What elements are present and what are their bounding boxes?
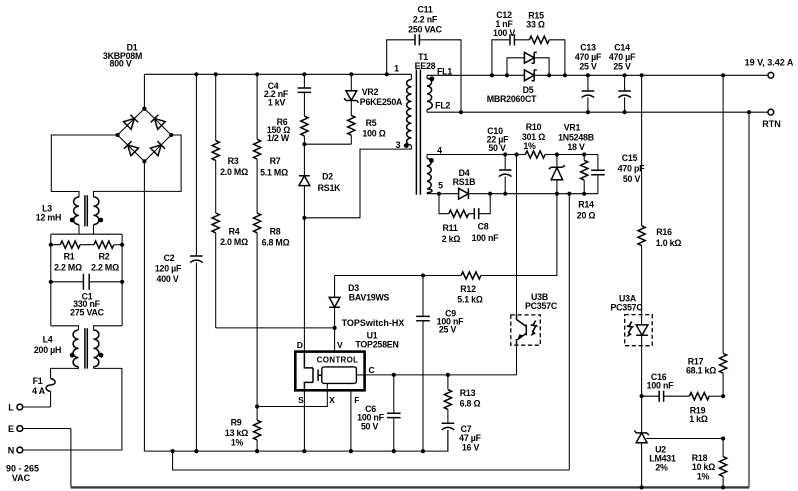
- svg-text:470 µF: 470 µF: [609, 52, 636, 62]
- resistor R5: [348, 115, 386, 144]
- terminal L: [8, 403, 50, 413]
- wire: bridge AC left to L3: [51, 135, 117, 197]
- svg-text:VAC: VAC: [12, 473, 31, 483]
- resistor R9: [225, 407, 261, 452]
- wire: U2 ref to divider: [646, 436, 725, 440]
- svg-text:E: E: [8, 424, 14, 434]
- svg-text:1 kV: 1 kV: [268, 97, 286, 107]
- resistor R11: [439, 194, 469, 244]
- svg-text:N: N: [8, 446, 15, 456]
- svg-text:P6KE250A: P6KE250A: [360, 97, 403, 107]
- svg-text:VR1: VR1: [564, 123, 581, 133]
- svg-text:R4: R4: [229, 227, 240, 237]
- resistor R2: [91, 241, 122, 272]
- svg-text:2 kΩ: 2 kΩ: [442, 234, 461, 244]
- resistor R8: [254, 159, 290, 406]
- wire: F pin to ground: [350, 390, 352, 451]
- svg-text:VR2: VR2: [362, 87, 379, 97]
- svg-text:RS1K: RS1K: [318, 183, 342, 193]
- resistor R1: [51, 241, 94, 272]
- svg-text:13 kΩ: 13 kΩ: [225, 428, 248, 438]
- svg-text:470 pF: 470 pF: [618, 164, 645, 174]
- capacitor C7: [442, 423, 482, 452]
- svg-text:18 V: 18 V: [567, 142, 585, 152]
- transformer T1 primary winding (pins 1-3): [394, 64, 411, 151]
- wire: RTN riser to bottom rail: [748, 112, 750, 487]
- svg-text:33 Ω: 33 Ω: [526, 20, 545, 30]
- svg-text:19 V, 3.42 A: 19 V, 3.42 A: [745, 58, 794, 68]
- svg-text:R13: R13: [460, 388, 476, 398]
- svg-text:R2: R2: [99, 252, 110, 262]
- resistor R13: [444, 375, 480, 423]
- capacitor C6: [357, 375, 400, 451]
- svg-text:1%: 1%: [697, 472, 710, 482]
- svg-text:C: C: [368, 365, 374, 375]
- resistor R12: [335, 272, 483, 305]
- svg-text:1N5248B: 1N5248B: [558, 132, 594, 142]
- svg-text:100 nF: 100 nF: [472, 233, 499, 243]
- svg-text:R16: R16: [656, 227, 672, 237]
- fuse F1: [32, 376, 55, 407]
- wire: bridge + output riser: [143, 74, 145, 108]
- svg-text:L: L: [8, 403, 14, 413]
- wire: U3A cathode to C16 node: [640, 346, 644, 399]
- resistor R10: [522, 122, 545, 158]
- terminal RTN: [762, 109, 781, 129]
- capacitor C13: [575, 43, 602, 113]
- svg-text:R5: R5: [366, 118, 377, 128]
- diode D4: [453, 168, 476, 199]
- common-mode choke L4: [34, 326, 122, 369]
- transformer T1 core: [415, 52, 436, 195]
- capacitor C14: [609, 43, 636, 113]
- transformer T1 bias winding (pins 4-5): [427, 146, 443, 194]
- svg-text:C14: C14: [614, 43, 630, 53]
- svg-text:C15: C15: [622, 153, 638, 163]
- capacitor C11 branch: [387, 4, 461, 112]
- resistor R14: [577, 155, 596, 221]
- resistor R3: [212, 74, 248, 177]
- svg-text:25 V: 25 V: [579, 62, 597, 72]
- svg-text:3: 3: [396, 140, 401, 150]
- node V (D3/R4/V-pin): [333, 326, 337, 352]
- wire: rail2 (bias return): [171, 449, 570, 470]
- resistor R18: [692, 439, 727, 488]
- svg-text:1%: 1%: [523, 141, 536, 151]
- wire: L4 left bottom to fuse: [51, 367, 79, 379]
- zener VR1: [549, 123, 594, 194]
- diode D3: [329, 276, 389, 328]
- capacitor C2: [155, 74, 203, 451]
- optocoupler U3B (phototransistor): [511, 292, 558, 345]
- svg-text:20 Ω: 20 Ω: [577, 211, 596, 221]
- svg-text:V: V: [337, 340, 343, 350]
- common-mode choke L3: [36, 195, 103, 226]
- wire: U3B emitter to C rail: [516, 345, 518, 375]
- wire: S pin to ground: [303, 390, 305, 451]
- wire: earth riser: [70, 429, 72, 488]
- wire: bias top rail (pin4): [427, 152, 598, 156]
- resistor R4: [212, 160, 248, 328]
- capacitor C15: [591, 153, 645, 194]
- svg-text:250 VAC: 250 VAC: [408, 24, 442, 34]
- shunt regulator U2 LM431: [634, 396, 676, 487]
- svg-text:D: D: [297, 340, 303, 350]
- bridge rectifier D1: [103, 43, 173, 164]
- svg-text:90 - 265: 90 - 265: [6, 464, 39, 474]
- svg-text:S: S: [298, 395, 304, 405]
- svg-text:MBR2060CT: MBR2060CT: [487, 94, 537, 104]
- svg-text:RS1B: RS1B: [453, 177, 476, 187]
- svg-text:L4: L4: [43, 335, 53, 345]
- svg-text:1/2 W: 1/2 W: [267, 133, 290, 143]
- svg-text:X: X: [329, 395, 335, 405]
- svg-text:2.2 nF: 2.2 nF: [413, 15, 438, 25]
- capacitor C1: [51, 274, 122, 318]
- diode D2: [299, 144, 341, 218]
- resistor R7: [254, 74, 289, 177]
- svg-text:F1: F1: [33, 376, 43, 386]
- svg-text:800 V: 800 V: [110, 59, 132, 69]
- svg-text:16 V: 16 V: [462, 443, 480, 453]
- svg-text:2.2 MΩ: 2.2 MΩ: [91, 263, 119, 273]
- svg-text:2.0 MΩ: 2.0 MΩ: [220, 167, 248, 177]
- svg-text:100 V: 100 V: [493, 28, 515, 38]
- svg-text:1 kΩ: 1 kΩ: [689, 414, 708, 424]
- svg-text:6.8 Ω: 6.8 Ω: [460, 398, 481, 408]
- svg-text:C13: C13: [580, 43, 596, 53]
- wire: VR1 anode to R12 line: [481, 194, 557, 276]
- optocoupler U3A (LED): [610, 293, 652, 345]
- svg-text:1: 1: [394, 64, 399, 74]
- svg-text:C8: C8: [478, 222, 489, 232]
- svg-text:FL2: FL2: [435, 101, 450, 111]
- capacitor C8: [469, 194, 500, 243]
- resistor R6: [267, 92, 308, 144]
- svg-text:D2: D2: [322, 172, 333, 182]
- resistor R17: [686, 75, 727, 398]
- wire: bridge minus riser to ground rail: [143, 161, 145, 451]
- svg-text:R7: R7: [270, 156, 281, 166]
- svg-text:50 V: 50 V: [623, 174, 641, 184]
- capacitor C12: [492, 10, 515, 75]
- TVS VR2: [344, 74, 403, 115]
- wire: U3B collector riser: [516, 155, 518, 315]
- svg-text:R1: R1: [64, 252, 75, 262]
- wire: C pin rail: [365, 373, 517, 377]
- wire: bottom earth/RTN rail: [71, 485, 749, 489]
- svg-text:R10: R10: [526, 122, 542, 132]
- svg-text:R9: R9: [231, 418, 242, 428]
- svg-text:BAV19WS: BAV19WS: [349, 292, 390, 302]
- svg-text:EE28: EE28: [415, 61, 436, 71]
- svg-text:100 nF: 100 nF: [647, 381, 674, 391]
- resistor R16: [638, 75, 681, 314]
- wire: drain node (T1 pin3 to U1 D pin): [302, 146, 411, 352]
- svg-text:1%: 1%: [231, 438, 244, 448]
- svg-text:R14: R14: [578, 200, 594, 210]
- svg-text:F: F: [354, 395, 359, 405]
- svg-text:400 V: 400 V: [157, 274, 179, 284]
- terminal E: [8, 424, 71, 434]
- dual Schottky D5: [487, 52, 549, 104]
- svg-text:5.1 kΩ: 5.1 kΩ: [457, 295, 483, 305]
- label: input voltage range: [6, 464, 39, 484]
- svg-text:TOP258EN: TOP258EN: [355, 339, 398, 349]
- svg-text:2%: 2%: [655, 462, 668, 472]
- terminal +19V output: [745, 58, 794, 79]
- wire: secondary output rail (FL1 to +out): [427, 73, 768, 77]
- svg-text:PC357C: PC357C: [610, 303, 643, 313]
- capacitor C16: [642, 372, 690, 402]
- svg-text:2.0 MΩ: 2.0 MΩ: [220, 237, 248, 247]
- svg-text:PC357C: PC357C: [525, 301, 558, 311]
- svg-text:R8: R8: [270, 227, 281, 237]
- wire: RTN rail (FL2 to RTN): [427, 110, 768, 114]
- svg-text:R11: R11: [442, 223, 457, 233]
- svg-text:12 mH: 12 mH: [36, 213, 61, 223]
- svg-text:470 µF: 470 µF: [575, 52, 602, 62]
- svg-text:120 µF: 120 µF: [155, 264, 182, 274]
- svg-text:TOPSwitch-HX: TOPSwitch-HX: [342, 318, 405, 328]
- svg-text:4 A: 4 A: [32, 386, 46, 396]
- svg-text:RTN: RTN: [762, 119, 781, 129]
- wire: primary HV+ top rail: [144, 72, 411, 76]
- svg-text:2.2 MΩ: 2.2 MΩ: [54, 263, 82, 273]
- svg-text:275 VAC: 275 VAC: [70, 308, 104, 318]
- resistor R15: [514, 11, 565, 76]
- svg-text:68.1 kΩ: 68.1 kΩ: [686, 365, 716, 375]
- svg-text:5: 5: [438, 181, 443, 191]
- svg-text:50 V: 50 V: [488, 143, 506, 153]
- svg-text:C2: C2: [164, 253, 175, 263]
- wire: R4 bottom to V-pin node: [216, 327, 335, 329]
- svg-text:R12: R12: [460, 284, 476, 294]
- wire: L3 bottom to R1R2/C1 box: [49, 225, 125, 326]
- svg-text:CONTROL: CONTROL: [317, 356, 359, 365]
- svg-text:R3: R3: [228, 156, 239, 166]
- wire: bias bottom rail (pin5): [427, 192, 598, 196]
- svg-text:200 µH: 200 µH: [34, 345, 61, 355]
- terminal N: [8, 367, 122, 456]
- resistor R19: [689, 393, 723, 424]
- TOPSwitch U1: [295, 318, 404, 405]
- wire: bridge AC right to L3: [94, 135, 182, 197]
- capacitor C10: [487, 126, 512, 194]
- transformer T1 secondary winding FL1-FL2: [427, 67, 452, 113]
- svg-text:1.0 kΩ: 1.0 kΩ: [656, 238, 682, 248]
- svg-text:25 V: 25 V: [439, 325, 457, 335]
- node X junction (R8/R9/X-pin): [255, 383, 327, 408]
- wire: bias return riser to rail2: [568, 194, 570, 470]
- svg-text:100 Ω: 100 Ω: [362, 128, 385, 138]
- svg-text:C11: C11: [417, 4, 432, 14]
- svg-text:5.1 MΩ: 5.1 MΩ: [260, 168, 288, 178]
- capacitor C4: [264, 74, 311, 107]
- capacitor C9: [416, 276, 464, 452]
- wire: primary ground rail: [144, 430, 448, 453]
- svg-text:6.8 MΩ: 6.8 MΩ: [262, 238, 290, 248]
- wire: snubber rail: [302, 142, 351, 146]
- svg-text:25 V: 25 V: [613, 62, 631, 72]
- svg-text:50 V: 50 V: [361, 422, 379, 432]
